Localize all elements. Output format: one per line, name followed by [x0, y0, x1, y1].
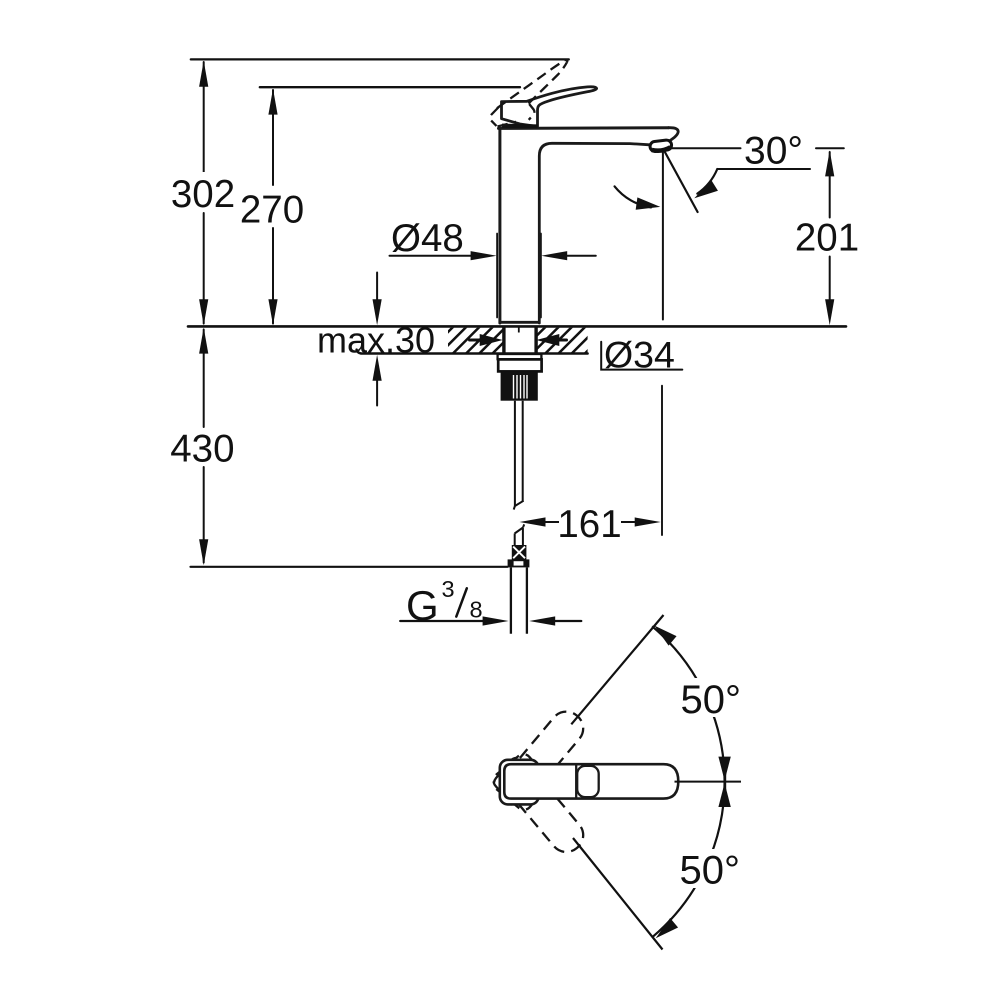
svg-text:30°: 30° [744, 129, 803, 172]
svg-text:161: 161 [557, 503, 621, 546]
svg-text:302: 302 [171, 173, 235, 216]
svg-text:270: 270 [240, 188, 304, 231]
svg-text:Ø48: Ø48 [391, 217, 464, 260]
svg-text:201: 201 [795, 217, 859, 260]
svg-text:430: 430 [170, 428, 234, 471]
svg-text:8: 8 [470, 597, 483, 623]
svg-text:50°: 50° [680, 849, 741, 893]
svg-text:Ø34: Ø34 [604, 333, 675, 375]
svg-text:50°: 50° [681, 678, 742, 722]
svg-text:max.30: max.30 [317, 319, 435, 360]
svg-text:G: G [406, 582, 439, 629]
svg-text:3: 3 [442, 576, 455, 602]
